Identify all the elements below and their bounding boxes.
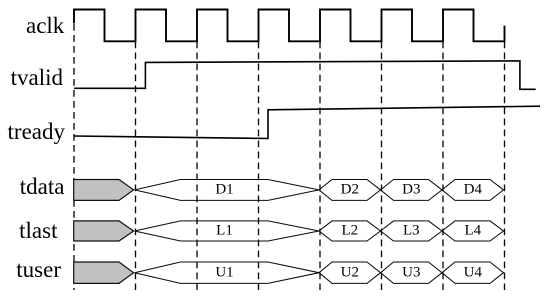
aclk waveform	[74, 10, 505, 42]
tdata D4 hexagon	[442, 180, 504, 201]
svg-text:U2: U2	[341, 264, 359, 280]
svg-text:tlast: tlast	[19, 218, 58, 243]
tlast L1 hexagon	[135, 221, 319, 241]
tdata dont-care gray pentagon	[74, 180, 134, 201]
svg-text:L3: L3	[403, 223, 420, 239]
clock-edge dashed line 2	[135, 42, 137, 291]
svg-text:L2: L2	[341, 223, 358, 239]
svg-text:tready: tready	[8, 119, 66, 144]
svg-text:aclk: aclk	[26, 13, 65, 38]
svg-text:tvalid: tvalid	[11, 65, 64, 90]
svg-text:L1: L1	[216, 223, 233, 239]
tuser dont-care gray pentagon	[74, 262, 134, 283]
svg-text:U1: U1	[215, 264, 233, 280]
svg-text:tdata: tdata	[20, 174, 65, 199]
tlast L2 hexagon	[319, 221, 381, 241]
svg-text:D4: D4	[464, 182, 483, 198]
svg-text:U3: U3	[402, 264, 420, 280]
svg-text:tuser: tuser	[16, 257, 61, 282]
tdata D2 hexagon	[319, 180, 381, 201]
clock-edge dashed line 1	[73, 24, 75, 290]
tuser U2 hexagon	[319, 262, 381, 283]
clock-edge dashed line 3	[196, 42, 198, 291]
clock-edge dashed line 8	[504, 42, 506, 291]
svg-text:D3: D3	[402, 182, 420, 198]
tvalid waveform	[74, 61, 536, 89]
tlast L3 hexagon	[381, 221, 443, 241]
svg-text:D1: D1	[215, 182, 233, 198]
svg-text:L4: L4	[464, 223, 481, 239]
tready waveform	[74, 106, 540, 138]
clock-edge dashed line 7	[442, 42, 444, 291]
svg-text:D2: D2	[341, 182, 359, 198]
tuser U3 hexagon	[381, 262, 443, 283]
clock-edge dashed line 6	[381, 42, 383, 291]
clock-edge dashed line 5	[319, 42, 321, 291]
clock-edge dashed line 4	[258, 42, 260, 291]
tdata D3 hexagon	[381, 180, 443, 201]
tlast dont-care gray pentagon	[74, 221, 134, 241]
tuser U4 hexagon	[442, 262, 504, 283]
tlast L4 hexagon	[442, 221, 504, 241]
svg-text:U4: U4	[464, 264, 483, 280]
tdata D1 hexagon	[135, 180, 319, 201]
tuser U1 hexagon	[135, 262, 319, 283]
